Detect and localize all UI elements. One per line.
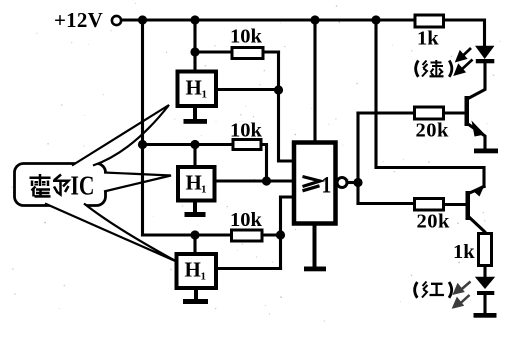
- svg-text:1: 1: [201, 271, 207, 283]
- svg-text:20k: 20k: [416, 120, 450, 142]
- svg-text:10k: 10k: [230, 26, 263, 48]
- svg-text:1k: 1k: [453, 241, 475, 263]
- svg-text:H: H: [186, 171, 202, 195]
- svg-text:10k: 10k: [230, 209, 263, 231]
- svg-text:1: 1: [202, 89, 208, 101]
- svg-text:H: H: [185, 258, 201, 282]
- svg-text:+12V: +12V: [54, 8, 103, 32]
- svg-text:1k: 1k: [417, 28, 439, 50]
- svg-text:1: 1: [322, 172, 332, 198]
- svg-text:1: 1: [201, 184, 207, 196]
- svg-text:20k: 20k: [417, 211, 451, 233]
- svg-text:IC: IC: [71, 171, 95, 201]
- svg-text:H: H: [186, 76, 202, 100]
- svg-text:10k: 10k: [230, 120, 263, 142]
